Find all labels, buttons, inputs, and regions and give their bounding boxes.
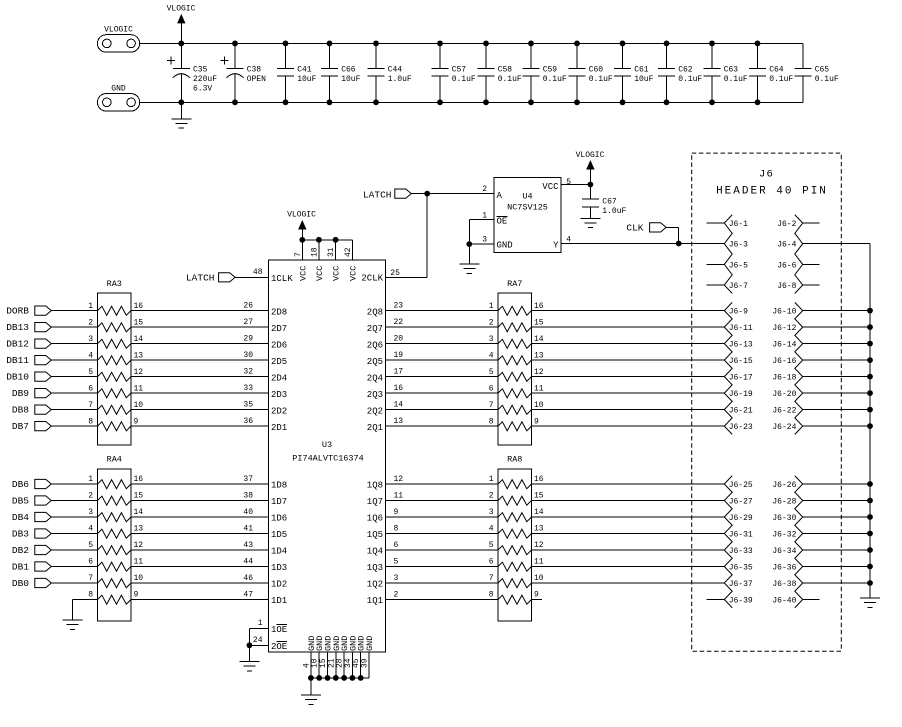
resistor RA3.7 [98, 405, 132, 414]
svg-text:C67: C67 [602, 197, 617, 206]
wire J6-40 stub [803, 599, 820, 601]
svg-text:VCC: VCC [542, 182, 559, 192]
svg-text:1Q6: 1Q6 [367, 514, 383, 524]
svg-text:220uF: 220uF [193, 75, 217, 84]
node junction C63 bottom rail [709, 99, 715, 105]
svg-text:44: 44 [243, 557, 253, 566]
svg-text:20: 20 [394, 334, 404, 343]
svg-text:2: 2 [489, 318, 494, 327]
svg-text:15: 15 [534, 492, 544, 501]
svg-text:42: 42 [344, 247, 353, 257]
svg-text:12: 12 [134, 541, 144, 550]
U3 pin 42 VCC [351, 240, 353, 260]
svg-text:46: 46 [243, 574, 253, 583]
node junction C61 bottom rail [620, 99, 626, 105]
svg-text:5: 5 [88, 368, 93, 377]
wire U3 to RA8 [386, 582, 499, 584]
node junction OE [247, 642, 253, 648]
resistor RA8.7 [498, 579, 532, 588]
svg-text:1Q8: 1Q8 [367, 481, 383, 491]
wire U3 to RA8 [386, 500, 499, 502]
svg-text:DB1: DB1 [12, 561, 29, 572]
wire U3 VCC bus [302, 239, 352, 241]
svg-text:13: 13 [134, 525, 144, 534]
capacitor C66 [329, 43, 331, 68]
wire DB5 to RA4 [51, 500, 97, 502]
svg-text:7: 7 [88, 574, 93, 583]
svg-text:LATCH: LATCH [363, 190, 392, 201]
capacitor C65 [802, 43, 804, 68]
svg-text:37: 37 [243, 475, 253, 484]
wire J6-5 stub [707, 263, 725, 265]
node junction J6-18 [867, 374, 873, 380]
svg-text:9: 9 [134, 591, 139, 600]
node junction C62 bottom rail [664, 99, 670, 105]
node junction J6-30 [867, 514, 873, 520]
wire RA4 to U3 [131, 566, 269, 568]
wire RA7 to J6 [532, 359, 725, 361]
svg-text:7: 7 [489, 574, 494, 583]
U3 pin 7 VCC [301, 240, 303, 260]
svg-text:J6-40: J6-40 [772, 597, 796, 606]
node junction C64 bottom rail [755, 99, 761, 105]
U3 pin 1 1OE [249, 627, 268, 629]
wire U4 OE to GND [468, 220, 470, 244]
wire DB3 to RA4 [51, 533, 97, 535]
wire U3 to RA8 [386, 516, 499, 518]
wire U3 to RA8 [386, 533, 499, 535]
svg-text:15: 15 [134, 318, 144, 327]
svg-text:J6-22: J6-22 [772, 407, 796, 416]
capacitor C35 [180, 43, 182, 68]
resistor RA7.8 [498, 422, 532, 431]
svg-text:8: 8 [394, 524, 399, 533]
U4 pin 5 VCC [561, 184, 590, 186]
wire RA4 to U3 [131, 483, 269, 485]
power VLOGIC arrow (U3) [301, 230, 303, 240]
resistor RA4.4 [98, 529, 132, 538]
svg-text:7: 7 [88, 401, 93, 410]
connector J6 pins 10-24 chevrons [795, 302, 803, 434]
capacitor C63 [711, 43, 713, 68]
node junction VCC pin 31 [333, 237, 339, 243]
svg-text:1: 1 [258, 619, 263, 628]
svg-text:DB2: DB2 [12, 545, 29, 556]
svg-text:RA7: RA7 [507, 279, 522, 289]
svg-text:12: 12 [534, 541, 544, 550]
svg-text:4: 4 [489, 351, 494, 360]
wire DORB to RA3 [51, 310, 97, 312]
wire J6-20 to bus [803, 392, 870, 394]
svg-text:3: 3 [88, 508, 93, 517]
node junction GND pin 45 [358, 675, 364, 681]
svg-text:J6-2: J6-2 [777, 220, 796, 229]
svg-text:1Q5: 1Q5 [367, 530, 383, 540]
svg-text:32: 32 [243, 367, 253, 376]
svg-text:2Q2: 2Q2 [367, 406, 383, 416]
svg-text:16: 16 [394, 384, 404, 393]
wire RA8 to J6 [532, 483, 725, 485]
svg-text:2Q8: 2Q8 [367, 307, 383, 317]
connector J6 pins 1,3,5,7 chevrons [724, 215, 732, 294]
svg-text:0.1uF: 0.1uF [452, 75, 476, 84]
node junction C35 top rail [178, 41, 184, 47]
svg-text:2Q7: 2Q7 [367, 324, 383, 334]
svg-text:1D2: 1D2 [271, 580, 287, 590]
node junction C62 top rail [664, 41, 670, 47]
wire RA4 to U3 [131, 533, 269, 535]
svg-text:11: 11 [534, 558, 544, 567]
svg-text:VLOGIC: VLOGIC [167, 5, 196, 14]
U3 pin 4 GND [310, 652, 312, 678]
svg-text:13: 13 [394, 417, 404, 426]
svg-text:43: 43 [243, 541, 253, 550]
wire U3 to RA8 [386, 599, 499, 601]
resistor RA4.7 [98, 579, 132, 588]
svg-text:1D7: 1D7 [271, 497, 287, 507]
node junction VCC pin 18 [316, 237, 322, 243]
svg-text:RA8: RA8 [507, 455, 522, 465]
wire J6-38 to bus [803, 582, 870, 584]
wire CLK tag to Y net [666, 226, 679, 228]
svg-text:5: 5 [489, 541, 494, 550]
resistor RA3.3 [98, 339, 132, 348]
svg-text:2OE: 2OE [271, 642, 287, 652]
svg-text:11: 11 [534, 384, 544, 393]
node junction J6-12 [867, 324, 873, 330]
wire RA8 to J6 [532, 566, 725, 568]
svg-text:6: 6 [489, 558, 494, 567]
svg-text:40: 40 [243, 508, 253, 517]
svg-text:5: 5 [88, 541, 93, 550]
U3 pin 18 VCC [318, 240, 320, 260]
node junction C41 top rail [283, 41, 289, 47]
U3 pin 34 GND [351, 652, 353, 678]
svg-text:16: 16 [534, 302, 544, 311]
node junction C38 bottom rail [232, 99, 238, 105]
wire RA7 to J6 [532, 425, 725, 427]
svg-text:26: 26 [243, 301, 253, 310]
svg-text:9: 9 [534, 417, 539, 426]
svg-text:J6-15: J6-15 [729, 357, 753, 366]
capacitor C61 [622, 43, 624, 68]
svg-text:PI74ALVTC16374: PI74ALVTC16374 [292, 454, 363, 464]
svg-text:35: 35 [243, 400, 253, 409]
wire LATCH to U3 2CLK [426, 194, 428, 278]
wire U4 Y to J6-3 [561, 243, 724, 245]
svg-text:16: 16 [534, 475, 544, 484]
ground (U4) [468, 244, 470, 264]
U4 pin 3 GND [469, 243, 494, 245]
resistor RA4.6 [98, 562, 132, 571]
svg-text:33: 33 [243, 384, 253, 393]
svg-text:3: 3 [88, 335, 93, 344]
wire DB4 to RA4 [51, 516, 97, 518]
wire RA3 to U3 [131, 359, 269, 361]
wire J6-7 stub [707, 284, 725, 286]
svg-text:J6-30: J6-30 [772, 514, 796, 523]
svg-text:C57: C57 [452, 66, 467, 75]
resistor array RA7 body [498, 293, 532, 445]
svg-text:8: 8 [489, 417, 494, 426]
resistor RA8.6 [498, 562, 532, 571]
svg-text:1: 1 [489, 302, 494, 311]
svg-text:48: 48 [253, 268, 263, 277]
svg-text:1D3: 1D3 [271, 563, 287, 573]
wire J6-24 to bus [803, 425, 870, 427]
resistor RA3.2 [98, 323, 132, 332]
svg-text:2D6: 2D6 [271, 340, 287, 350]
node junction C66 bottom rail [327, 99, 333, 105]
resistor RA8.8 [498, 595, 532, 604]
svg-text:J6-34: J6-34 [772, 547, 796, 556]
svg-text:C58: C58 [498, 66, 513, 75]
capacitor C44 [375, 43, 377, 68]
node junction U4 gnd [466, 241, 472, 247]
wire RA4 to U3 [131, 516, 269, 518]
svg-text:DB12: DB12 [6, 339, 29, 350]
wire RA8 pin 9 stub [532, 599, 543, 601]
svg-text:2CLK: 2CLK [361, 274, 383, 284]
svg-text:C61: C61 [634, 66, 649, 75]
wire RA7 to J6 [532, 326, 725, 328]
wire J6-30 to bus [803, 516, 870, 518]
svg-text:1D4: 1D4 [271, 547, 287, 557]
wire RA3 to U3 [131, 326, 269, 328]
resistor RA4.8 [98, 595, 132, 604]
connector J6 pins 25-39 chevrons [724, 476, 732, 608]
node junction C41 bottom rail [283, 99, 289, 105]
wire J6-2 stub [803, 222, 820, 224]
wire DB8 to RA3 [51, 409, 97, 411]
svg-text:J6-26: J6-26 [772, 481, 796, 490]
svg-text:RA3: RA3 [107, 279, 122, 289]
svg-text:J6-7: J6-7 [729, 282, 748, 291]
svg-text:VCC: VCC [315, 266, 325, 281]
svg-text:2Q4: 2Q4 [367, 373, 383, 383]
svg-text:C41: C41 [297, 66, 312, 75]
wire DB13 to RA3 [51, 326, 97, 328]
svg-text:7: 7 [294, 252, 303, 257]
svg-text:11: 11 [134, 558, 144, 567]
svg-text:J6-28: J6-28 [772, 498, 796, 507]
svg-text:0.1uF: 0.1uF [815, 75, 839, 84]
wire RA7 to J6 [532, 409, 725, 411]
svg-text:J6-8: J6-8 [777, 282, 796, 291]
node junction J6-20 [867, 390, 873, 396]
node junction C35 bottom rail [178, 99, 184, 105]
svg-text:OPEN: OPEN [247, 75, 266, 84]
node junction VCC pin 7 [299, 237, 305, 243]
svg-text:1D5: 1D5 [271, 530, 287, 540]
node junction C61 top rail [620, 41, 626, 47]
svg-text:DB3: DB3 [12, 528, 29, 539]
svg-text:1: 1 [482, 211, 487, 220]
resistor RA3.1 [98, 306, 132, 315]
svg-text:J6-17: J6-17 [729, 374, 753, 383]
svg-text:2Q6: 2Q6 [367, 340, 383, 350]
svg-text:J6-24: J6-24 [772, 423, 796, 432]
resistor array RA3 body [98, 293, 132, 445]
svg-text:2D1: 2D1 [271, 423, 287, 433]
svg-text:HEADER 40 PIN: HEADER 40 PIN [716, 186, 828, 198]
wire LATCH tag to U3 pin 48 [235, 276, 269, 278]
svg-text:11: 11 [394, 491, 404, 500]
svg-text:9: 9 [134, 417, 139, 426]
resistor RA8.3 [498, 513, 532, 522]
svg-text:J6-31: J6-31 [729, 531, 753, 540]
node junction GND pin 21 [333, 675, 339, 681]
svg-text:J6-33: J6-33 [729, 547, 753, 556]
svg-text:5: 5 [394, 557, 399, 566]
svg-text:5: 5 [566, 178, 571, 187]
svg-text:3: 3 [489, 335, 494, 344]
capacitor C62 [666, 43, 668, 68]
svg-text:DORB: DORB [6, 306, 29, 317]
svg-text:4: 4 [88, 351, 93, 360]
resistor RA7.1 [498, 306, 532, 315]
svg-text:J6-16: J6-16 [772, 357, 796, 366]
node junction C59 top rail [528, 41, 534, 47]
node junction GND pin 34 [350, 675, 356, 681]
svg-text:47: 47 [243, 590, 253, 599]
svg-text:J6-37: J6-37 [729, 580, 753, 589]
wire RA7 to J6 [532, 392, 725, 394]
resistor RA8.1 [498, 480, 532, 489]
ground (J6 bus) [860, 597, 880, 599]
svg-text:0.1uF: 0.1uF [543, 75, 567, 84]
svg-text:6: 6 [394, 541, 399, 550]
svg-text:1D6: 1D6 [271, 514, 287, 524]
node junction C59 bottom rail [528, 99, 534, 105]
wire RA3 to U3 [131, 376, 269, 378]
node junction GND pin 28 [341, 675, 347, 681]
svg-text:J6-32: J6-32 [772, 531, 796, 540]
wire 1OE to 2OE junction [248, 628, 250, 645]
svg-text:J6-14: J6-14 [772, 341, 796, 350]
svg-text:1Q4: 1Q4 [367, 547, 383, 557]
svg-text:J6-39: J6-39 [729, 597, 753, 606]
node junction C66 top rail [327, 41, 333, 47]
svg-text:2D7: 2D7 [271, 324, 287, 334]
svg-text:3: 3 [489, 508, 494, 517]
svg-text:39: 39 [361, 658, 370, 668]
svg-text:2Q1: 2Q1 [367, 423, 383, 433]
connector J6 HEADER 40 PIN outline [692, 153, 842, 651]
wire RA8 to J6 [532, 582, 725, 584]
wire U3 to RA7 [386, 343, 499, 345]
wire RA3 to U3 [131, 343, 269, 345]
svg-text:14: 14 [394, 400, 404, 409]
svg-text:J6-27: J6-27 [729, 498, 753, 507]
wire J6-32 to bus [803, 533, 870, 535]
svg-text:J6-6: J6-6 [777, 261, 796, 270]
svg-text:J6-38: J6-38 [772, 580, 796, 589]
resistor RA8.4 [498, 529, 532, 538]
svg-text:5: 5 [489, 368, 494, 377]
svg-text:1.0uF: 1.0uF [602, 207, 626, 216]
svg-text:15: 15 [134, 492, 144, 501]
node junction C57 bottom rail [437, 99, 443, 105]
svg-text:C38: C38 [247, 66, 262, 75]
node junction GND pin 15 [325, 675, 331, 681]
svg-text:0.1uF: 0.1uF [498, 75, 522, 84]
svg-text:13: 13 [134, 351, 144, 360]
svg-text:13: 13 [534, 351, 544, 360]
svg-text:8: 8 [88, 417, 93, 426]
wire DB2 to RA4 [51, 549, 97, 551]
wire DB12 to RA3 [51, 343, 97, 345]
wire J6-10 to bus [803, 310, 870, 312]
wire J6-34 to bus [803, 549, 870, 551]
node junction C44 top rail [373, 41, 379, 47]
svg-text:J6-4: J6-4 [777, 241, 796, 250]
wire RA8 to J6 [532, 516, 725, 518]
svg-text:2D4: 2D4 [271, 373, 287, 383]
svg-text:1: 1 [88, 302, 93, 311]
svg-text:30: 30 [243, 351, 253, 360]
node junction C58 top rail [483, 41, 489, 47]
svg-text:GND: GND [365, 636, 375, 651]
resistor RA4.5 [98, 546, 132, 555]
svg-text:LATCH: LATCH [186, 273, 215, 284]
svg-text:OE: OE [497, 216, 508, 226]
svg-text:NC7SV125: NC7SV125 [507, 203, 548, 213]
ground (below C35) [180, 102, 182, 119]
svg-text:C35: C35 [193, 66, 208, 75]
svg-text:10uF: 10uF [297, 75, 316, 84]
svg-text:2: 2 [394, 590, 399, 599]
svg-text:J6-11: J6-11 [729, 324, 753, 333]
wire J6-6 stub [803, 263, 820, 265]
svg-text:6: 6 [489, 384, 494, 393]
svg-text:1: 1 [489, 475, 494, 484]
svg-text:16: 16 [134, 302, 144, 311]
wire RA4 to U3 [131, 599, 269, 601]
svg-text:2: 2 [489, 492, 494, 501]
svg-text:CLK: CLK [626, 223, 643, 234]
svg-text:DB6: DB6 [12, 479, 29, 490]
svg-text:J6-1: J6-1 [729, 220, 748, 229]
node junction C44 bottom rail [373, 99, 379, 105]
capacitor C59 [530, 43, 532, 68]
svg-text:11: 11 [134, 384, 144, 393]
resistor RA3.6 [98, 389, 132, 398]
U4 pin 1 OE [469, 219, 494, 221]
svg-text:8: 8 [489, 591, 494, 600]
wire U3 to RA7 [386, 326, 499, 328]
node junction GND pin 10 [316, 675, 322, 681]
wire RA4 pin 8 to ground [73, 599, 98, 601]
svg-text:A: A [497, 191, 503, 201]
wire J6-18 to bus [803, 376, 870, 378]
svg-text:10: 10 [134, 401, 144, 410]
wire J6-1 stub [707, 222, 725, 224]
U3 pin 21 GND [335, 652, 337, 678]
svg-text:1Q2: 1Q2 [367, 580, 383, 590]
svg-text:38: 38 [243, 491, 253, 500]
U3 pin 28 GND [343, 652, 345, 678]
svg-text:DB8: DB8 [12, 405, 29, 416]
wire RA8 to J6 [532, 533, 725, 535]
svg-text:29: 29 [243, 334, 253, 343]
svg-text:J6-35: J6-35 [729, 564, 753, 573]
svg-text:C65: C65 [815, 66, 830, 75]
svg-text:41: 41 [243, 524, 253, 533]
wire RA8 to J6 [532, 500, 725, 502]
svg-text:2D3: 2D3 [271, 390, 287, 400]
svg-text:9: 9 [394, 508, 399, 517]
